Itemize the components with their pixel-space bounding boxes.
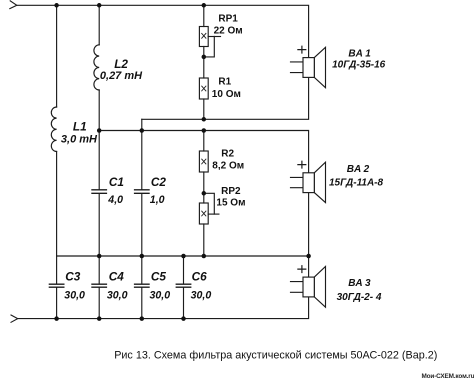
input terminal arrow top [10,1,17,9]
speaker BA3 symbol [291,266,326,308]
node bottom rail / C4 [97,316,102,321]
wire column A lower (L1 to bus) [56,151,58,256]
resistor RP2 power mark x [202,211,206,216]
capacitor C6 upper wire [183,256,185,284]
node midrange rail / R2 [202,128,207,133]
RP1 wiper tap wire [204,37,215,57]
resistor R1 body [199,78,208,99]
inductor L2 coil [94,45,99,90]
wire R2 feed [203,131,205,152]
wire bottom rail [18,297,309,319]
capacitor C6 plates [176,284,190,287]
capacitor C3 upper wire [56,256,58,284]
svg-text:30,0: 30,0 [107,289,128,301]
wire R2 to RP2 [203,172,205,203]
svg-text:Мои-СХЕМ.ком.ru: Мои-СХЕМ.ком.ru [422,373,474,378]
capacitor C5 lower wire [141,288,143,319]
node bus / RP2 [202,254,207,259]
node midrange rail / column C [140,128,145,133]
wire bus rail [57,255,309,257]
svg-text:15ГД-11А-8: 15ГД-11А-8 [329,177,383,188]
capacitor C4 upper wire [98,256,100,284]
capacitor C1 upper wire [98,131,100,190]
input terminal arrow bottom [11,315,18,322]
capacitor C3 lower wire [56,288,58,319]
svg-text:C5: C5 [151,269,167,283]
svg-text:C4: C4 [109,269,125,283]
node bottom rail / C3 [54,316,59,321]
wire BA2 to bus to BA3 [308,193,310,278]
resistor RP1 body [199,27,208,47]
wire RP1 to R1 [203,47,205,79]
svg-text:30,0: 30,0 [64,289,85,301]
svg-text:15 Ом: 15 Ом [216,198,245,209]
svg-text:C1: C1 [109,175,124,189]
svg-text:R1: R1 [218,76,231,87]
svg-text:BA 2: BA 2 [347,164,370,175]
svg-text:RP1: RP1 [218,14,238,25]
resistor RP2 body [199,203,208,224]
svg-text:3,0 mH: 3,0 mH [61,133,98,145]
capacitor C1 plates [92,190,106,194]
inductor L1 coil [51,107,56,151]
wire upper horizontal (BA1 return) [142,77,309,119]
wire column A upper (to L1) [56,5,58,107]
speaker BA2 symbol [291,161,326,202]
wire RP1 feed from top rail [203,5,205,26]
capacitor C1 lower wire [98,194,100,256]
capacitor C4 lower wire [98,288,100,319]
svg-text:RP2: RP2 [221,186,241,197]
node bus / BA3 [306,254,311,259]
wire L2 to midrange rail [98,90,100,131]
svg-text:4,0: 4,0 [107,194,123,206]
svg-text:L1: L1 [73,119,87,133]
capacitor C4 plates [92,284,106,287]
svg-text:1,0: 1,0 [150,194,165,206]
wire R1 to upper horizontal [203,99,205,119]
node bus / column B [97,254,102,259]
svg-text:0,27 mH: 0,27 mH [100,70,143,82]
node R1 / upper horizontal [202,117,207,122]
node RP2 wiper junction [202,191,207,196]
wire midrange rail [99,131,308,173]
capacitor C2 upper wire [141,131,143,190]
speaker BA1 symbol [291,46,326,87]
RP1 wiper tap bar [208,36,220,38]
svg-text:C2: C2 [151,175,167,189]
capacitor C2 plates [135,190,149,194]
svg-text:22 Ом: 22 Ом [214,25,243,36]
svg-text:10 Ом: 10 Ом [212,89,241,100]
svg-text:BA 1: BA 1 [348,49,371,60]
RP2 wiper tap wire [204,193,215,214]
svg-text:C3: C3 [65,269,81,283]
svg-text:Рис 13. Схема фильтра акустиче: Рис 13. Схема фильтра акустической систе… [114,350,437,362]
svg-text:30,0: 30,0 [150,289,171,301]
node midrange rail / column B [97,128,102,133]
wire step column C [141,119,143,130]
node top rail / column A [54,3,59,8]
svg-text:10ГД-35-16: 10ГД-35-16 [332,59,386,70]
node top rail / RP1 [202,3,207,8]
resistor R2 body [199,151,208,172]
node bottom rail / C5 [140,316,145,321]
capacitor C3 plates [49,284,63,287]
svg-text:8,2 Ом: 8,2 Ом [212,161,244,172]
svg-text:R2: R2 [221,149,234,160]
svg-text:30ГД-2- 4: 30ГД-2- 4 [337,292,382,303]
resistor RP1 power mark x [202,33,206,38]
resistor R1 power mark x [202,86,206,91]
node top rail / column B [97,3,102,8]
capacitor C5 plates [135,284,149,287]
wire column B upper (to L2) [98,5,100,45]
capacitor C5 upper wire [141,256,143,284]
node bus / column D [181,254,186,259]
node bus / column C [140,254,145,259]
svg-text:BA 3: BA 3 [348,278,371,289]
capacitor C2 lower wire [141,194,143,256]
RP2 wiper tap bar [208,213,219,215]
resistor R2 power mark x [202,159,206,164]
svg-text:L2: L2 [114,57,128,71]
node bottom rail / C6 [181,316,186,321]
wire RP2 to bus [203,224,205,256]
capacitor C6 lower wire [183,288,185,319]
svg-text:30,0: 30,0 [191,289,212,301]
wire top rail [17,5,309,57]
node RP1 wiper junction [202,55,207,60]
svg-text:C6: C6 [192,269,208,283]
